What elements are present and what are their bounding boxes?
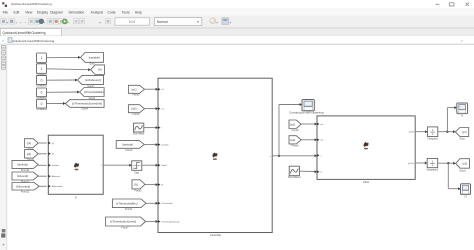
svg-text:From3: From3	[133, 113, 141, 116]
svg-text:QuicksortLinearWithClustering: QuicksortLinearWithClustering	[3, 31, 46, 35]
svg-text:Analysis: Analysis	[91, 10, 104, 14]
svg-text:Goto1: Goto1	[459, 169, 466, 172]
svg-text:▸: ▸	[100, 21, 102, 25]
svg-text:tThresholds: tThresholds	[161, 202, 173, 205]
svg-text:[y1]: [y1]	[27, 141, 32, 145]
svg-text:Sign: Sign	[134, 172, 139, 175]
svg-text:Diagram: Diagram	[50, 10, 63, 14]
svg-text:[Abound]: [Abound]	[17, 174, 28, 178]
svg-text:[lambda]: [lambda]	[17, 163, 28, 167]
svg-text:[variable]: [variable]	[89, 55, 100, 59]
svg-text:QuicksortLinearWithClustering: QuicksortLinearWithClustering	[12, 39, 54, 43]
svg-text:QuicksortLinearWithClustering: QuicksortLinearWithClustering	[11, 2, 52, 6]
svg-text:[xThresholdsMin]: [xThresholdsMin]	[116, 201, 138, 205]
svg-text:Tools: Tools	[122, 10, 130, 14]
svg-text:[xThresholdsMin]: [xThresholdsMin]	[84, 90, 105, 94]
svg-text:[N]: [N]	[134, 182, 138, 186]
svg-text:Constant2: Constant2	[36, 85, 48, 88]
svg-text:From6: From6	[125, 208, 133, 211]
svg-text:0: 0	[41, 91, 43, 95]
svg-text:▾: ▾	[197, 20, 199, 24]
svg-text:0: 0	[41, 102, 43, 106]
svg-text:▸: ▸	[20, 21, 22, 25]
svg-text:Code: Code	[107, 10, 115, 14]
svg-text:[w1]: [w1]	[290, 122, 295, 126]
svg-text:lambda: lambda	[52, 165, 60, 167]
svg-text:Construction with clustering: Construction with clustering	[289, 111, 324, 115]
svg-text:[xThresholdsSorted]: [xThresholdsSorted]	[110, 220, 136, 224]
svg-text:▸: ▸	[68, 21, 70, 25]
svg-text:◂: ◂	[15, 21, 17, 25]
svg-text:lambda: lambda	[161, 145, 169, 147]
svg-text:Simulation: Simulation	[68, 10, 84, 14]
svg-text:Integrator: Integrator	[427, 138, 437, 141]
svg-text:Normal: Normal	[157, 20, 168, 24]
svg-text:[N]: [N]	[98, 68, 102, 72]
svg-text:Display: Display	[37, 10, 48, 14]
svg-text:[w2]: [w2]	[131, 107, 136, 111]
svg-text:tAbounded: tAbounded	[52, 185, 63, 188]
svg-text:Controller: Controller	[210, 233, 221, 237]
svg-text:From4: From4	[126, 149, 134, 152]
svg-text:y1Hd: y1Hd	[409, 132, 415, 134]
svg-text:Help: Help	[135, 10, 142, 14]
svg-text:View: View	[25, 10, 33, 14]
svg-text:From12: From12	[21, 191, 30, 194]
svg-text:tAbound: tAbound	[52, 175, 61, 178]
svg-text:1: 1	[41, 56, 43, 60]
svg-text:[xThresholdsSortedInit]: [xThresholdsSortedInit]	[72, 102, 102, 106]
svg-text:S: S	[75, 196, 77, 200]
svg-text:Goto4: Goto4	[81, 108, 88, 111]
svg-text:[xAbsbound]: [xAbsbound]	[85, 78, 101, 82]
svg-text:File: File	[3, 10, 9, 14]
svg-text:SigeV: SigeV	[161, 165, 167, 167]
svg-text:Sine Wave1: Sine Wave1	[288, 176, 301, 179]
svg-text:10.0: 10.0	[129, 20, 136, 24]
svg-text:[y2]: [y2]	[27, 152, 32, 156]
svg-text:[Abounded]: [Abounded]	[16, 184, 30, 188]
svg-text:From9: From9	[292, 144, 300, 147]
svg-text:[w2]: [w2]	[290, 138, 295, 142]
svg-text:Constant4: Constant4	[36, 108, 48, 111]
svg-text:[lambda]: [lambda]	[123, 142, 134, 146]
svg-text:0: 0	[41, 78, 43, 82]
svg-text:[y1]: [y1]	[462, 130, 467, 134]
svg-text:From2: From2	[133, 94, 141, 97]
svg-text:Goto: Goto	[459, 138, 465, 141]
svg-text:Plant: Plant	[363, 180, 369, 184]
svg-text:Edit: Edit	[14, 10, 20, 14]
svg-text:1: 1	[41, 67, 43, 71]
svg-text:[w1]: [w1]	[131, 87, 136, 91]
svg-text:y2Om: y2Om	[408, 163, 414, 165]
svg-text:[y2]: [y2]	[463, 161, 468, 165]
svg-text:From8: From8	[292, 129, 300, 132]
svg-text:tThresholdsSorted: tThresholdsSorted	[161, 220, 180, 223]
svg-text:From5: From5	[135, 189, 143, 192]
svg-text:Sine Wave: Sine Wave	[133, 133, 145, 136]
svg-text:From7: From7	[122, 226, 130, 229]
svg-text:Integrator1: Integrator1	[427, 169, 439, 172]
